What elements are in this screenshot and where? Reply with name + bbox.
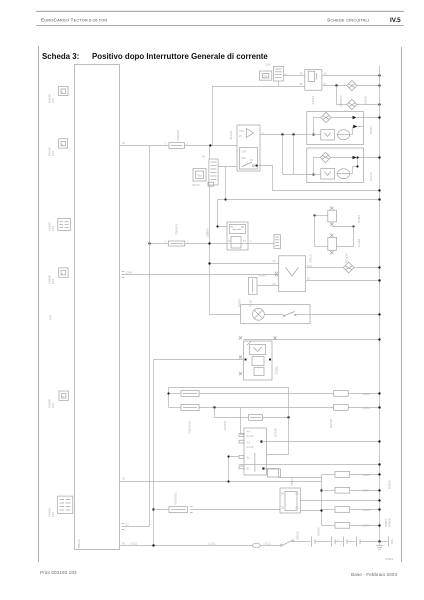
battery cell3 <box>344 537 348 547</box>
wire riser main x209 <box>209 185 211 315</box>
node bus row C <box>378 406 380 408</box>
label 047 61046 <box>48 147 56 156</box>
wire oval to switch <box>260 542 280 546</box>
node relay 25860 coil feed <box>216 225 218 227</box>
wire ECU pin1 stub <box>241 434 245 436</box>
svg-text:A4: A4 <box>247 441 251 445</box>
svg-text:047: 047 <box>49 315 53 320</box>
svg-text:24010: 24010 <box>364 96 368 105</box>
node bus top feed <box>378 74 380 76</box>
fuse 70000/7 <box>169 143 184 149</box>
svg-text:047: 047 <box>51 279 55 284</box>
box C.A.V. A4710 <box>193 169 206 182</box>
label 047 00688 <box>48 399 56 408</box>
svg-text:30: 30 <box>122 541 125 545</box>
svg-text:15/9: 15/9 <box>241 150 247 154</box>
svg-text:75/a: 75/a <box>239 129 245 133</box>
svg-text:50118: 50118 <box>229 131 233 140</box>
ECU 25231 <box>239 428 267 475</box>
crimp mark X right <box>274 336 277 339</box>
wire fuse row 509 <box>322 509 336 511</box>
wire fuse row 474 <box>322 474 336 476</box>
node row B feeder <box>167 392 169 394</box>
svg-text:5118/X: 5118/X <box>259 274 267 278</box>
svg-text:55000: 55000 <box>77 539 81 548</box>
wire cell4 to bus <box>360 541 388 543</box>
svg-text:25810: 25810 <box>275 366 279 375</box>
wire comb to relay 50118 <box>218 166 237 168</box>
fuse 70000/21 <box>169 507 187 513</box>
fuse 70000/23 <box>249 415 263 421</box>
connector block A4010 (box) <box>260 71 272 80</box>
relay 50118 main switch control unit <box>237 125 260 171</box>
svg-text:30: 30 <box>307 276 310 280</box>
svg-text:Scheda 3:: Scheda 3: <box>42 52 79 61</box>
switch 20000 (battery master) <box>280 540 293 546</box>
relay 78200 <box>280 488 300 513</box>
node fuse pair feed <box>313 214 315 216</box>
trunk 481 from 55000 <box>120 476 322 481</box>
wire trunk to relay 24037 pin 85 <box>300 82 303 86</box>
wire lamp 24011 to bus <box>357 104 380 106</box>
node row C riser1 <box>213 406 215 408</box>
node panel2 feed <box>312 173 314 175</box>
wire cell3-cell4 <box>347 541 356 543</box>
svg-text:70000/7: 70000/7 <box>176 130 180 141</box>
lamp 62304 (diamond) <box>343 262 354 273</box>
wire contact row 25860 <box>185 239 274 244</box>
battery 20001 cell1 <box>312 537 316 547</box>
relay box aux <box>268 469 281 477</box>
wire 78200 pin87 to fusebank <box>300 510 321 512</box>
svg-text:A4 30: A4 30 <box>247 434 254 438</box>
svg-text:75/a: 75/a <box>197 174 203 178</box>
ground G1 <box>376 542 383 550</box>
tiny box icon after label <box>208 182 214 186</box>
svg-text:30: 30 <box>126 522 129 526</box>
fuse 70318 <box>328 234 337 255</box>
svg-text:SCHEDE CIRCUITALI: SCHEDE CIRCUITALI <box>327 18 369 24</box>
svg-text:60300: 60300 <box>363 392 371 396</box>
component 55000 battery disconnect unit (left tall box) <box>75 65 120 550</box>
trunk bottom battery line <box>120 541 253 545</box>
wire 24037 pin 87 to lamp 24010 <box>322 82 347 86</box>
control unit 25810 <box>244 341 273 380</box>
node output branch b <box>292 133 294 135</box>
svg-text:1-2111: 1-2111 <box>130 542 138 546</box>
svg-text:20000: 20000 <box>317 527 321 536</box>
fuse 70000/13b <box>181 405 199 411</box>
connector ST4 (left, 047 02558) <box>59 268 68 277</box>
bus +30 main vertical <box>379 66 381 542</box>
svg-text:86: 86 <box>281 492 284 496</box>
wire fuse 70312 link <box>332 225 353 228</box>
svg-text:67338: 67338 <box>274 428 278 437</box>
node 25810 out <box>269 358 271 360</box>
svg-text:62304: 62304 <box>345 254 349 263</box>
node bus trunk339 <box>378 338 380 340</box>
svg-text:B1: B1 <box>247 467 251 471</box>
page rule left <box>38 46 40 562</box>
wire ignition to lamp 62304 <box>306 264 344 268</box>
svg-text:4: 4 <box>250 239 252 243</box>
node bus row B <box>378 392 380 394</box>
node bus bottom <box>378 540 380 542</box>
fuse 60946b <box>335 487 350 493</box>
node ECU out2 <box>262 467 265 470</box>
header rule bottom <box>36 25 404 27</box>
wire feeder x149 from fuse row <box>149 146 151 527</box>
crimp mark X left <box>239 336 242 339</box>
wire 50118 output to lamp panels <box>260 131 307 135</box>
svg-text:v: v <box>337 538 339 541</box>
node riser/contact junction <box>208 242 210 244</box>
node bus panel2 <box>378 156 380 158</box>
node fuse link <box>352 225 354 227</box>
node bus 509 <box>378 508 380 510</box>
node bus 464 <box>378 463 380 465</box>
wire ECU out2 to fusebank <box>264 469 322 478</box>
wire riser to beacon module 75047 <box>210 314 241 316</box>
wire ECU aux to bus <box>239 464 380 466</box>
svg-text:67108: 67108 <box>223 421 227 430</box>
node fusebank b <box>320 509 322 511</box>
node riser/ignition feed <box>208 262 210 264</box>
fuse 5118 <box>249 274 267 295</box>
svg-text:86: 86 <box>300 72 303 76</box>
svg-text:A4710: A4710 <box>192 183 200 187</box>
label 047 02293 <box>48 222 56 231</box>
page rule right <box>401 47 403 562</box>
node feeder/row243 junction <box>148 242 150 244</box>
svg-text:20170: 20170 <box>369 172 373 181</box>
wire link down to fuse 70318 <box>337 227 354 247</box>
svg-text:A: A <box>285 73 287 77</box>
node bus 490 <box>378 489 380 491</box>
svg-text:60507: 60507 <box>384 518 388 527</box>
trunk row A <box>169 388 289 418</box>
svg-text:75817: 75817 <box>290 477 294 486</box>
wire feeder into 25810 <box>154 359 244 361</box>
svg-text:60948: 60948 <box>363 508 371 512</box>
battery 20002 cell2 <box>332 537 336 547</box>
wire branch down to lamp 24011 <box>337 86 347 105</box>
wire 50118 contact out to trunk <box>257 166 273 191</box>
svg-text:30: 30 <box>273 259 276 263</box>
wire comb branch down to trunk200 <box>225 167 227 200</box>
wire feed fuse 70312 <box>315 215 328 217</box>
svg-text:IV.5: IV.5 <box>390 17 401 24</box>
node bus ignition <box>378 279 380 281</box>
wire fuse row 490 <box>322 490 336 492</box>
wire feeder rowA down <box>168 388 170 408</box>
svg-text:A4: A4 <box>247 430 251 434</box>
svg-text:85: 85 <box>296 492 299 496</box>
svg-text:30: 30 <box>324 72 327 76</box>
node bus lamp1 <box>378 84 380 86</box>
svg-text:70312: 70312 <box>357 215 361 224</box>
svg-text:A4 30: A4 30 <box>247 445 254 449</box>
svg-text:047: 047 <box>51 151 55 156</box>
wire row C mid <box>199 407 334 409</box>
node bus trunk190 <box>378 189 380 191</box>
wire lamp 24010 to bus <box>357 85 380 87</box>
inner divider ECU <box>254 453 256 472</box>
label 047 02558 lower <box>48 508 56 517</box>
wire branch risers to lower panel <box>283 135 314 175</box>
node feeder x153 row509 <box>152 508 154 510</box>
wire row D <box>215 417 249 419</box>
wire riser fuse pair <box>314 216 316 247</box>
connector inline oval <box>252 543 260 547</box>
ignition switch 24010 <box>279 256 306 292</box>
label 60506 <box>384 518 391 527</box>
wire row B left <box>169 393 182 395</box>
fuse 70000/1 <box>168 241 185 246</box>
svg-text:15/1: 15/1 <box>307 264 313 268</box>
wire riser x240 to ECU pin1 <box>240 408 242 435</box>
wire row C to bus <box>348 407 379 409</box>
svg-text:A4: A4 <box>202 155 206 159</box>
svg-text:15: 15 <box>250 158 253 162</box>
wire fuse row 474 to bus <box>350 474 380 476</box>
wire riser to top trunk <box>213 87 305 146</box>
wire row C left <box>169 407 182 409</box>
wire ST6 row to relay 78200 <box>190 507 280 513</box>
svg-text:Base - Febbraio 2003: Base - Febbraio 2003 <box>351 572 397 578</box>
svg-text:87: 87 <box>296 506 299 510</box>
wire trunk to ignition switch pin 30 <box>210 259 279 264</box>
svg-text:EUROCARGO TECTOR 6-26 TON: EUROCARGO TECTOR 6-26 TON <box>41 18 107 24</box>
wire 55000 stub to feeder x149 <box>122 522 150 529</box>
wire riser fuse row to comb <box>209 146 211 160</box>
wire fuse row 525 to bus <box>350 525 380 527</box>
relay 25860 <box>227 222 248 250</box>
svg-text:1-2111: 1-2111 <box>208 542 216 546</box>
connector ST5 (left, 047 00688) <box>59 391 68 400</box>
connector comb out 25860 <box>274 235 281 249</box>
svg-text:85: 85 <box>300 82 303 86</box>
svg-text:15: 15 <box>239 134 242 138</box>
crimp mark X 25810 left1 <box>239 356 242 359</box>
node bus trunk200 <box>378 198 380 200</box>
svg-text:75047: 75047 <box>238 299 242 308</box>
wire ignition 15 to bus <box>306 276 380 280</box>
wire trunk200 down to relay 25860 coil <box>218 200 228 227</box>
node 25810 in <box>244 358 246 360</box>
panel 20110 (lamp module) <box>307 112 380 145</box>
node fusebank a <box>320 489 322 491</box>
svg-text:60301: 60301 <box>363 406 371 410</box>
node output branch a <box>281 133 283 135</box>
svg-text:Positivo dopo Interruttore Gen: Positivo dopo Interruttore Generale di c… <box>92 52 268 61</box>
wire fuse row 490 to bus <box>350 490 380 492</box>
svg-text:IV431: IV431 <box>385 557 393 561</box>
wire cell2-cell3 <box>335 538 343 541</box>
svg-text:60949: 60949 <box>363 523 371 527</box>
fuse 60300 <box>334 391 349 397</box>
svg-text:047: 047 <box>51 98 55 103</box>
wire beacon to bus <box>310 314 380 316</box>
svg-text:25860: 25860 <box>206 228 210 237</box>
node lamp branch <box>335 84 337 86</box>
wire 55000 to ignition aux <box>122 270 279 277</box>
svg-text:60947: 60947 <box>363 489 371 493</box>
wire switch to battery <box>294 541 311 543</box>
node bus lamp2 <box>378 103 380 105</box>
trunk 339 to bus <box>244 339 380 341</box>
wire fusebank riser <box>321 475 323 526</box>
connector ST1 (left, 047 60038) <box>59 86 68 95</box>
wire ECU out1 to bus <box>262 441 380 443</box>
node row D corner <box>287 416 289 418</box>
wire riser x228 <box>229 457 240 482</box>
node panel2 t1 <box>356 156 358 158</box>
wire feed fuse 70318 <box>315 246 328 248</box>
node riser x228 <box>227 455 229 457</box>
svg-text:70000/1: 70000/1 <box>175 224 179 235</box>
wire 78200 pin85 out to bus <box>300 500 379 502</box>
node bus 474 <box>378 473 380 475</box>
node bus ECU <box>378 440 380 442</box>
node bus 62304 <box>378 266 380 268</box>
wire row B mid <box>199 393 334 395</box>
svg-text:30: 30 <box>122 476 125 480</box>
node ECU out1 <box>260 440 263 443</box>
svg-text:30: 30 <box>122 141 125 145</box>
svg-text:047: 047 <box>51 403 55 408</box>
trunk 190 wire <box>273 190 380 192</box>
svg-text:25/v: 25/v <box>266 63 272 67</box>
fuse 60949 <box>335 523 350 529</box>
svg-text:24011/V: 24011/V <box>339 94 343 106</box>
node fuse row junction <box>209 144 211 146</box>
label 047 02558 <box>48 275 56 284</box>
svg-text:20110: 20110 <box>369 125 373 134</box>
svg-text:70000/13: 70000/13 <box>188 421 192 434</box>
fuse 70000/13a <box>181 391 199 397</box>
wire feeder to fuse 70000/21 <box>154 509 170 511</box>
panel 20170 (lamp module) <box>307 148 380 183</box>
wire comb to relay 24037 pin 86 <box>283 72 305 76</box>
wire row D right <box>263 417 289 419</box>
svg-text:A1: A1 <box>247 456 251 460</box>
fuse 60301 <box>334 405 349 411</box>
svg-text:60/1/B: 60/1/B <box>329 419 333 428</box>
svg-text:20000: 20000 <box>296 531 300 540</box>
svg-text:30/1: 30/1 <box>241 156 247 160</box>
wire cell1-cell2 <box>315 541 331 543</box>
svg-text:1049: 1049 <box>126 270 132 274</box>
header rule top <box>36 10 404 12</box>
svg-text:047: 047 <box>51 226 55 231</box>
battery cell4 <box>357 537 361 547</box>
svg-text:047: 047 <box>51 512 55 517</box>
svg-text:1-2111: 1-2111 <box>264 542 272 546</box>
node bus beacon <box>378 313 380 315</box>
lamp 24011 (diamond) <box>347 99 357 109</box>
svg-text:70318: 70318 <box>357 239 361 248</box>
node panel1 feed <box>312 133 314 135</box>
wire fuse 70000/7 to relay 50118 pin <box>184 142 237 146</box>
wire lamp 62304 to bus <box>354 267 379 269</box>
svg-text:1: 1 <box>165 239 167 243</box>
crimp mark X 25810 left2 <box>239 372 242 375</box>
svg-text:5118: 5118 <box>249 300 253 307</box>
svg-text:70000/21: 70000/21 <box>174 492 178 505</box>
connector comb A4010 <box>273 66 286 81</box>
svg-text:24010: 24010 <box>309 254 313 263</box>
wire feeder x153 down <box>153 360 155 546</box>
svg-text:25/v: 25/v <box>263 75 269 79</box>
svg-text:24037: 24037 <box>311 96 315 105</box>
svg-text:30: 30 <box>281 506 284 510</box>
relay 24037 <box>305 70 322 91</box>
node trunk200 branch <box>224 198 226 200</box>
fuse 60948a <box>335 507 350 513</box>
wire 5118 to ignition switch <box>257 282 279 286</box>
node bus 500 <box>378 499 380 501</box>
svg-text:60946: 60946 <box>363 473 371 477</box>
svg-text:Print 603193.183: Print 603193.183 <box>40 570 77 576</box>
wire +30 row from 55000 to fuse 70000/7 <box>120 141 170 145</box>
wire 24037 pin 30 to bus <box>322 72 380 76</box>
node bus 525 <box>378 524 380 526</box>
fuse 70312 <box>328 207 337 226</box>
battery end plate <box>389 537 393 547</box>
trunk200 wire <box>218 199 380 201</box>
connector comb A4710 <box>202 155 218 186</box>
wire row B to bus <box>348 393 379 395</box>
beacon module 75047 <box>241 305 310 324</box>
node panel2 t2 <box>356 165 358 167</box>
label 047 60038 <box>48 94 56 103</box>
wire fuse row 525 <box>322 525 336 527</box>
svg-text:1: 1 <box>165 142 167 146</box>
svg-text:86: 86 <box>231 225 234 229</box>
lamp 24010 (diamond) <box>347 80 357 90</box>
connector ST6 comb (047 02558) <box>58 496 73 513</box>
node trunk481 riser x228 <box>227 480 229 482</box>
connector ST3 comb (047 02293) <box>58 219 71 231</box>
wire fuse row 509 to bus <box>350 509 380 511</box>
wire comb stub to trunk <box>278 81 280 87</box>
node 50118 contact pin <box>255 164 257 166</box>
wire riser x289 down <box>267 418 289 455</box>
wire fused feed row to 25860 <box>150 239 169 243</box>
node bus panel1 <box>378 116 380 118</box>
node feeder x153 bottom <box>152 544 154 546</box>
svg-text:85: 85 <box>241 225 244 229</box>
svg-text:2: 2 <box>187 142 189 146</box>
svg-text:60505: 60505 <box>388 480 392 489</box>
svg-text:87: 87 <box>243 239 246 243</box>
fuse 60946a <box>335 472 350 478</box>
wire riser x214 to ECU <box>214 408 216 418</box>
svg-text:2: 2 <box>187 239 189 243</box>
connector ST2 (left, 047 61046) <box>59 139 68 148</box>
